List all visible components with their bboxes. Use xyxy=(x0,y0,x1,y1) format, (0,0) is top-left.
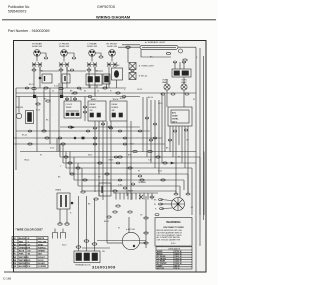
connector xyxy=(186,193,190,195)
EOC pin drops xyxy=(170,126,188,194)
wire lamp drops xyxy=(166,90,168,107)
connector xyxy=(36,103,40,105)
connector xyxy=(138,175,142,177)
surface unit E4 xyxy=(107,63,117,67)
connector xyxy=(88,96,92,98)
connector xyxy=(174,193,178,195)
connector xyxy=(123,137,127,139)
terminal block stems xyxy=(78,196,80,251)
connector xyxy=(101,123,104,125)
control box F xyxy=(64,101,81,118)
wire drop to light squares xyxy=(127,48,129,62)
wire inner left riser xyxy=(15,88,17,170)
connector xyxy=(173,61,176,63)
connector xyxy=(168,139,171,141)
junction xyxy=(60,95,63,98)
connector xyxy=(166,52,170,54)
junction xyxy=(33,95,36,98)
connector xyxy=(161,179,165,181)
warning box xyxy=(155,218,192,247)
fuse box xyxy=(112,68,123,80)
relay box A xyxy=(39,74,52,83)
connector xyxy=(99,56,103,58)
connector xyxy=(116,162,120,164)
connector xyxy=(126,46,130,48)
connector xyxy=(59,87,63,89)
connector xyxy=(114,156,118,158)
electronic oven control EOC xyxy=(168,107,192,126)
surface unit E3 xyxy=(87,63,97,67)
wire SW1 stem xyxy=(36,56,38,61)
connector xyxy=(184,129,187,131)
connector xyxy=(86,130,90,132)
connector xyxy=(155,214,159,216)
connector xyxy=(28,143,32,145)
connector xyxy=(128,167,132,169)
connector xyxy=(68,126,72,128)
wire stub xyxy=(40,53,46,57)
plug symbol 2 xyxy=(61,229,66,239)
wire E3 drops xyxy=(88,67,90,89)
junction xyxy=(71,126,74,128)
oven light sq 2 xyxy=(129,73,148,80)
connector xyxy=(140,179,144,181)
connector xyxy=(93,137,97,139)
surface unit E1 xyxy=(32,63,42,67)
wire T1 drops xyxy=(59,209,61,224)
stems above box F xyxy=(66,97,68,102)
connector xyxy=(150,196,154,198)
oven light assembly xyxy=(16,106,34,124)
wire link E3-D xyxy=(95,67,103,72)
horizontal bus lines xyxy=(60,157,200,191)
svg-text:Part Number - 916002069: Part Number - 916002069 xyxy=(8,29,50,33)
connector xyxy=(153,137,157,139)
wire bottom h xyxy=(82,247,110,249)
wire E1 drops xyxy=(33,67,35,97)
connector xyxy=(118,156,122,158)
bus corner drops right xyxy=(176,152,204,273)
connector xyxy=(25,87,29,89)
connector xyxy=(93,143,97,145)
connector xyxy=(163,162,167,164)
connector xyxy=(153,123,156,125)
broil element X xyxy=(139,195,143,199)
control box H xyxy=(110,98,127,121)
connector xyxy=(81,191,85,193)
connector xyxy=(92,243,97,245)
wire link E1-B xyxy=(40,67,59,72)
motor top wire xyxy=(128,217,130,233)
wire lamp risers xyxy=(166,79,168,84)
connector xyxy=(58,223,62,225)
connector xyxy=(144,232,148,234)
wire vent to right xyxy=(178,46,196,48)
connector xyxy=(28,130,32,132)
connector xyxy=(42,130,46,132)
double relay box C xyxy=(86,74,102,88)
connector xyxy=(185,93,189,95)
motor wire left xyxy=(107,242,122,244)
wire stub xyxy=(67,53,74,57)
connector xyxy=(116,205,120,207)
connector xyxy=(118,130,122,132)
connector xyxy=(83,111,86,113)
wire EOC left risers xyxy=(161,93,163,163)
legend table right xyxy=(156,247,192,270)
connector xyxy=(148,150,152,152)
connector xyxy=(87,69,91,71)
connector xyxy=(70,69,74,71)
connector xyxy=(46,100,50,102)
connector xyxy=(83,179,87,181)
connector xyxy=(65,223,69,225)
left drop wires xyxy=(37,83,82,191)
svg-text:WIRING DIAGRAM: WIRING DIAGRAM xyxy=(96,15,130,20)
connector xyxy=(118,179,122,181)
connector xyxy=(133,150,137,152)
connector xyxy=(65,98,68,100)
motor riser xyxy=(145,196,147,248)
surface unit E2 xyxy=(59,63,69,67)
connector xyxy=(105,173,109,175)
connector xyxy=(128,211,132,213)
wire color table xyxy=(12,237,48,269)
header rule xyxy=(2,19,216,21)
connector xyxy=(93,127,96,129)
connector xyxy=(84,240,89,242)
connector xyxy=(131,183,135,185)
connector xyxy=(159,199,163,201)
connector xyxy=(61,143,65,145)
wire SW4 stem xyxy=(111,56,113,61)
connector xyxy=(32,69,36,71)
oven lamp L2 xyxy=(181,80,187,91)
connector xyxy=(44,87,48,89)
connector xyxy=(149,139,152,141)
wire to vent xyxy=(118,46,140,48)
transformer T1 xyxy=(57,193,73,209)
door lock box xyxy=(99,183,111,196)
motor wire right xyxy=(140,242,146,244)
connector xyxy=(72,57,76,59)
surface switch SW1 xyxy=(32,43,43,57)
surface switch SW3 xyxy=(87,43,98,57)
connector xyxy=(161,93,165,95)
paper noise overlay xyxy=(14,41,206,272)
terminal block TB xyxy=(74,251,100,267)
connector xyxy=(68,162,72,164)
connector xyxy=(145,117,148,119)
connector xyxy=(144,242,148,244)
wire E2 drops xyxy=(60,67,62,97)
pilot lamp xyxy=(179,49,183,53)
connector xyxy=(59,69,63,71)
wire bus h1 xyxy=(16,87,126,89)
bottom border extension xyxy=(4,271,14,273)
header publication number xyxy=(8,5,30,13)
wire vent drop xyxy=(141,49,171,57)
wire bus h3 xyxy=(16,96,140,98)
wire label row xyxy=(52,91,112,93)
connector xyxy=(138,130,142,132)
connector xyxy=(83,106,86,108)
oven lamp L1 xyxy=(162,80,170,91)
connector xyxy=(116,92,120,94)
connector xyxy=(183,59,187,61)
wire top right join xyxy=(195,47,197,151)
right risers mid xyxy=(143,97,159,174)
wire E4 drops xyxy=(108,67,110,89)
connector xyxy=(70,173,74,175)
connector xyxy=(109,127,112,129)
wire gauge labels xyxy=(22,57,198,254)
connector xyxy=(58,137,62,139)
center risers xyxy=(95,121,131,243)
oven motor M1 xyxy=(122,228,139,250)
connector xyxy=(76,246,81,248)
relay box D xyxy=(103,74,110,88)
convection fan motor M2 xyxy=(172,198,185,211)
connector xyxy=(76,167,80,169)
connector xyxy=(122,96,126,98)
connector xyxy=(123,187,127,189)
right riser wires xyxy=(199,48,201,246)
junction xyxy=(171,162,174,164)
junction xyxy=(74,137,76,139)
wire SW3 stem xyxy=(91,56,93,61)
hidden bake element xyxy=(113,190,158,200)
connector xyxy=(32,87,36,89)
connector xyxy=(64,156,68,158)
connector xyxy=(107,216,111,218)
wire riser x85 xyxy=(84,97,86,122)
connector xyxy=(113,211,117,213)
diagram border xyxy=(14,41,207,273)
svg-text:Publication No.: Publication No. xyxy=(8,5,30,9)
wire mid h127 xyxy=(60,126,140,128)
connector xyxy=(159,203,163,205)
connector xyxy=(103,87,107,89)
control box G xyxy=(88,98,106,121)
connector xyxy=(77,87,81,89)
wire SW2 stem xyxy=(63,56,65,61)
relay K1 stems xyxy=(174,62,176,69)
connector xyxy=(156,156,160,158)
wire light riser xyxy=(18,97,20,113)
connector xyxy=(173,130,176,132)
wire to vent 2 xyxy=(122,44,140,46)
oven light sq 1 xyxy=(129,63,154,70)
connector xyxy=(160,208,164,210)
svg-text:C-166: C-166 xyxy=(3,277,12,281)
connector xyxy=(144,217,148,219)
junction xyxy=(82,137,85,140)
surface switch SW2 xyxy=(59,44,70,57)
connector xyxy=(182,61,185,63)
connector xyxy=(131,70,134,72)
connector xyxy=(171,93,175,95)
wires left mid xyxy=(16,130,150,132)
connector xyxy=(108,126,112,128)
oven vent element xyxy=(140,45,178,49)
wire to motor riser xyxy=(97,240,146,242)
relay box B xyxy=(62,74,70,83)
svg-text:GHF507DS: GHF507DS xyxy=(97,5,116,9)
fan motor leads xyxy=(161,200,173,201)
connector xyxy=(113,190,117,192)
surface switch SW4 xyxy=(107,44,119,57)
connector xyxy=(98,162,102,164)
connector xyxy=(73,98,76,100)
connector xyxy=(45,137,49,139)
wire bus h2 xyxy=(16,92,196,94)
connector xyxy=(123,143,127,145)
wire fuse drop xyxy=(116,80,118,88)
connector xyxy=(94,198,98,200)
connector xyxy=(44,57,48,59)
svg-text:5995409973: 5995409973 xyxy=(8,9,27,13)
wire stub xyxy=(95,53,101,56)
connector xyxy=(73,92,77,94)
wire link E2-C xyxy=(67,67,86,72)
plug symbol 1 xyxy=(53,229,58,239)
relay K1 xyxy=(172,69,191,77)
